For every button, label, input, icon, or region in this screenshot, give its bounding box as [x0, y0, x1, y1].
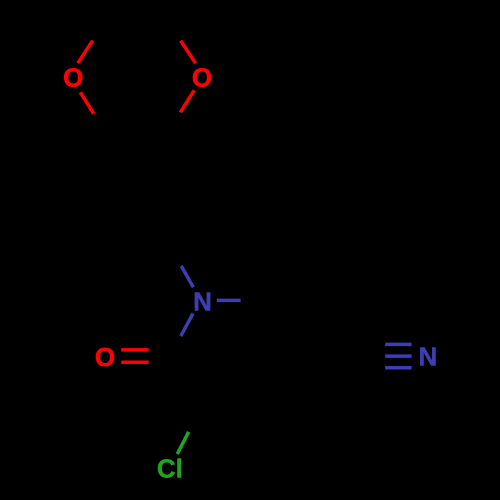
svg-text:N: N: [419, 342, 438, 372]
svg-text:O: O: [192, 63, 212, 93]
svg-text:O: O: [95, 342, 115, 372]
svg-text:O: O: [63, 63, 83, 93]
wire C=O double bond red halves (carbonyl): [121, 348, 148, 352]
svg-text:Cl: Cl: [157, 454, 183, 484]
wire O1-C2 red half-bond (dioxine upper-left): [78, 41, 93, 64]
wire O4-C4a red half-bond (dioxine lower-right): [180, 90, 194, 112]
wire N-CH2 blue half-bond (to cyanomethyl): [217, 299, 241, 303]
svg-text:N: N: [193, 287, 212, 317]
wire C#N triple bond blue halves (nitrile): [385, 343, 411, 347]
wire O1-C8a red half-bond (dioxine lower-left): [80, 92, 94, 114]
wire N-C(=O) blue half-bond (to carbonyl): [181, 314, 193, 337]
wire CH2-Cl green half-bond: [177, 432, 188, 454]
wire C6-N blue half-bond (aryl to amide N): [181, 266, 193, 288]
wire O4-C3 red half-bond (dioxine upper-right): [181, 41, 196, 64]
